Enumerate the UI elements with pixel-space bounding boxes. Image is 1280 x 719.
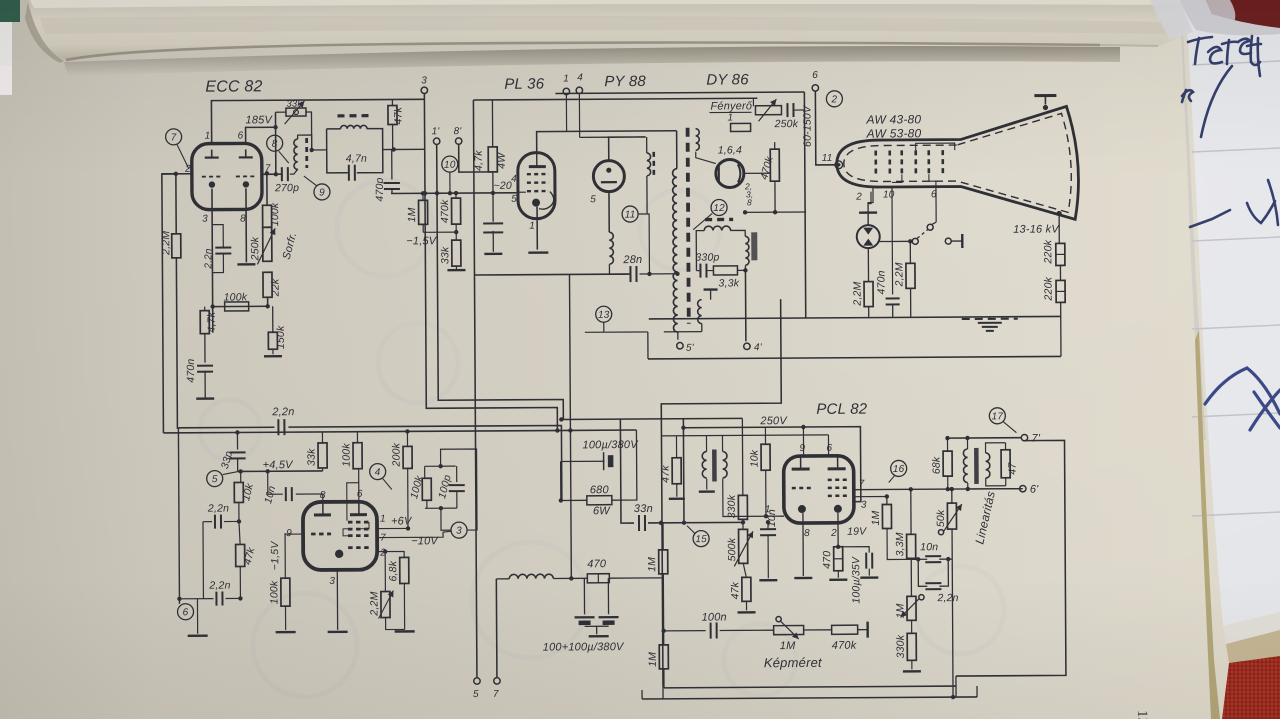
U1a anode plates [205, 149, 253, 157]
triode-pentode U5 PCL82 envelope [784, 456, 854, 523]
100n left [664, 630, 706, 632]
svg-text:6: 6 [183, 607, 189, 618]
coil DY86 heater right [745, 236, 749, 265]
cap PL36 bottom [492, 231, 494, 252]
svg-text:150k: 150k [275, 325, 287, 349]
value 4,7n [346, 153, 367, 165]
10n b node l [911, 558, 927, 560]
junction 395/148 [391, 147, 395, 151]
47 top [1005, 443, 1007, 450]
svg-text:470k: 470k [439, 199, 451, 223]
capacitor 100p [449, 485, 465, 491]
bus C y430 [163, 430, 570, 432]
voltage -1,5V b [269, 541, 281, 571]
switch contact c [945, 238, 951, 244]
label 1 res [727, 112, 733, 123]
svg-text:2: 2 [855, 192, 862, 203]
value 150k [275, 325, 287, 349]
U3 cathode bar [601, 181, 617, 183]
ground 47k2 [738, 611, 756, 614]
spark gap T bar [859, 213, 877, 225]
callout5 ptr [223, 471, 239, 474]
callout 11 [622, 206, 638, 222]
ground PL36 cap [484, 253, 502, 256]
blocking core bar [712, 450, 717, 482]
ground 33k t [447, 269, 465, 272]
4,5V rail [238, 470, 323, 473]
resistor 4,7k [200, 311, 209, 334]
svg-text:8': 8' [454, 126, 463, 137]
junction 951/491 [950, 487, 954, 491]
bus P y425 [178, 426, 274, 429]
resistor 680 6W [587, 496, 612, 505]
U5 pin1 wire [780, 515, 784, 517]
value 470 [587, 558, 607, 570]
junction 951/699 [951, 695, 955, 699]
capacitor 470p [384, 183, 400, 189]
terminal 5b label [473, 689, 479, 700]
value 470n b [875, 270, 887, 294]
PCL box top [661, 299, 783, 686]
svg-text:5: 5 [473, 689, 479, 700]
value 1M v2 [647, 652, 659, 667]
terminal 8' label [454, 126, 463, 137]
callout 11 stem [638, 214, 649, 274]
U1b pentode dot grid [348, 521, 369, 549]
U1b pin7 row [377, 531, 451, 537]
fenyero link [794, 109, 804, 111]
U5 pin1b [765, 504, 771, 515]
svg-text:2,2M: 2,2M [368, 591, 380, 616]
y213 wire [745, 211, 806, 213]
svg-text:28n: 28n [622, 254, 642, 266]
junction 967/491 [966, 487, 970, 491]
callout17 ptr [1003, 422, 1016, 433]
pin 2 [184, 164, 191, 175]
bus x806 [804, 92, 805, 318]
label ~20 [493, 180, 511, 192]
-1,5V row [423, 231, 456, 233]
150k top wire [272, 306, 274, 332]
terminal 6' label [1030, 484, 1039, 496]
cap 100 legs [583, 578, 585, 614]
enclosure top y99 [473, 98, 757, 100]
ground 470k [829, 579, 847, 582]
10n g bottom [767, 535, 769, 578]
c6 to ground [196, 599, 198, 634]
value 10k b [240, 482, 256, 503]
10k bottom [765, 470, 767, 516]
resistor 1M t [419, 200, 428, 224]
resistor 6,8k [400, 557, 409, 583]
svg-text:470k: 470k [832, 640, 857, 652]
junction 660/523 [659, 521, 663, 525]
CRT pin10 stub [891, 186, 894, 294]
1M pot top [910, 559, 912, 596]
100k e bottom [284, 606, 286, 630]
U5 pin 8 [804, 528, 810, 539]
callout10 stem [449, 172, 451, 193]
value 3,3M [894, 532, 906, 556]
tube name PCL 82 [816, 401, 868, 418]
value 68k [931, 456, 943, 474]
capacitor 10n b [925, 556, 941, 562]
junction 742/523 [741, 520, 745, 524]
junction 1' bus [435, 191, 439, 195]
100p branch top [456, 466, 458, 482]
svg-text:5: 5 [511, 194, 517, 205]
terminal 5' label [686, 343, 695, 354]
junction 683/428 [681, 426, 685, 430]
U1b pin 6 [357, 489, 363, 500]
100u right leg [635, 430, 637, 461]
U5 pin 9 [800, 443, 806, 454]
triode U1b ECC82 envelope [303, 502, 377, 570]
U3 anode dot [606, 168, 611, 173]
junction 277/172 [274, 172, 278, 176]
junction 241/469 [238, 469, 242, 473]
junction 570/578 [569, 576, 573, 580]
terminal 1 label [563, 73, 569, 84]
pair to c3 [441, 508, 451, 530]
3,3M bottom [910, 558, 912, 559]
outer bottom 2 [642, 697, 977, 699]
ground 6,8k [395, 630, 415, 633]
EHT wire mid [1059, 265, 1061, 280]
coil DY86 top [696, 129, 700, 151]
U1b pin1 row [377, 527, 408, 529]
resistor 150k [268, 332, 277, 349]
2,2n b loop [918, 559, 927, 586]
value 470k t [439, 199, 451, 223]
diode U3 PY88 envelope [593, 161, 624, 192]
CRT pin6 stub [935, 186, 937, 222]
svg-text:7: 7 [859, 479, 865, 490]
lin prim bottom [967, 483, 969, 489]
pair bottom row [425, 507, 457, 509]
oscillator coil L1 [294, 139, 298, 169]
fenyero underline [709, 111, 751, 113]
svg-text:50k: 50k [935, 509, 947, 527]
busC 100k drop [356, 432, 358, 443]
callout 15 [693, 531, 709, 547]
capacitor 10n c [286, 487, 292, 501]
resistor 100k e [281, 578, 290, 606]
resistor 10k b [234, 482, 243, 502]
U5 pin7 wire [854, 489, 1023, 490]
1M p bottom [911, 620, 913, 633]
33p bottom [237, 458, 239, 471]
value 6W [593, 505, 611, 517]
resistor 470 k [834, 547, 843, 571]
U5 pin 6 [827, 443, 833, 454]
junction cathode bus [210, 304, 214, 308]
voltage +4,5V [263, 459, 295, 471]
ground 100k e [276, 631, 296, 634]
value 4,7k 4W b [496, 152, 508, 169]
terminal 6' [1020, 485, 1026, 491]
resistor 100k bias [225, 302, 249, 311]
value 250k [249, 236, 261, 261]
2,2n loop [202, 522, 204, 599]
voltage 13-16 kV [1013, 223, 1060, 235]
svg-text:1M: 1M [870, 510, 882, 525]
954 stub [955, 676, 957, 697]
value 10k [749, 449, 761, 467]
svg-text:60-150V: 60-150V [801, 105, 813, 147]
U5 pin 7 [859, 479, 865, 490]
tube name PY 88 [604, 73, 646, 90]
svg-text:270p: 270p [274, 182, 299, 194]
svg-text:100k: 100k [268, 580, 280, 604]
svg-text:5: 5 [590, 194, 596, 205]
value 50k [935, 509, 947, 527]
bus x570 upper [568, 274, 571, 430]
svg-text:4,7k: 4,7k [206, 311, 218, 332]
flyback primary winding [673, 169, 678, 332]
2,2M bottom long wire [176, 258, 177, 429]
svg-text:19V: 19V [847, 526, 867, 538]
value 470k h [832, 640, 857, 652]
value 33k t [439, 246, 451, 264]
callout 7 [166, 129, 182, 145]
U4 pins 238 [744, 181, 753, 191]
resistor 200k [403, 446, 412, 468]
svg-text:250V: 250V [759, 415, 788, 427]
capacitor 10n g [760, 529, 776, 535]
50k down [951, 559, 954, 698]
svg-text:250k: 250k [249, 236, 261, 261]
330p row right [707, 270, 713, 272]
50k bottom [951, 529, 953, 559]
svg-text:3: 3 [861, 500, 867, 511]
pair loop [441, 449, 477, 530]
bus 1' vertical [437, 143, 564, 420]
svg-text:6: 6 [931, 189, 937, 200]
value 200k [390, 442, 402, 467]
47k2 bottom [745, 601, 747, 610]
value 33n [634, 503, 653, 515]
svg-text:33k: 33k [439, 246, 451, 264]
resistor 1M v2 [659, 645, 668, 669]
470k h T bar [858, 622, 868, 638]
svg-text:68k: 68k [931, 456, 943, 474]
CRT gun electrodes [876, 150, 943, 173]
2,2n cath bottom [212, 254, 223, 273]
junction 683/523 [682, 521, 686, 525]
lin core bar [974, 448, 979, 484]
U5 pin 3 [861, 500, 867, 511]
value 47k b [241, 546, 257, 567]
value 2,2M a [852, 281, 864, 306]
2,2M c wiper [378, 591, 393, 619]
ground U1b k [328, 631, 348, 634]
svg-text:10k: 10k [749, 449, 761, 467]
value 33k [286, 99, 303, 110]
svg-text:100k: 100k [269, 202, 281, 226]
svg-text:10n: 10n [920, 541, 938, 553]
svg-text:33n: 33n [634, 503, 653, 515]
ground 10n g [759, 579, 777, 582]
value 1M r [870, 510, 882, 525]
svg-text:470n: 470n [875, 270, 887, 294]
CRT pin 11 [822, 153, 833, 164]
callout 9 [314, 184, 330, 200]
svg-text:AW 53-80: AW 53-80 [866, 126, 922, 140]
value 100k c [340, 443, 352, 467]
potentiometer 1M h [774, 626, 804, 635]
svg-text:3,3M: 3,3M [894, 532, 906, 556]
value 100k b [224, 291, 248, 303]
voltage 185V [245, 114, 273, 126]
voltage -1,5V [406, 235, 438, 247]
value 470k DY [758, 155, 776, 182]
heater T bar [704, 288, 718, 290]
svg-text:Képméret: Képméret [764, 655, 823, 670]
resistor heater 1 [731, 123, 751, 131]
661 bottom join [662, 686, 664, 699]
voltage 19V [847, 526, 867, 538]
svg-text:100+100µ/380V: 100+100µ/380V [543, 641, 625, 654]
resistor 1M v1 [659, 550, 668, 574]
enclosure y359 [648, 356, 1061, 359]
value 270p [274, 182, 299, 194]
svg-text:22k: 22k [269, 278, 281, 297]
terminal 6 label [812, 70, 818, 81]
diode U4 DY86 envelope [716, 159, 744, 187]
ground 100u35 [860, 576, 878, 579]
U1b pin 8 [320, 490, 326, 501]
2,2M a bottom [868, 307, 870, 318]
resistor 3,3k [713, 266, 737, 275]
2,2M c top [384, 552, 386, 592]
capacitor 270p [282, 167, 288, 181]
coil b bottom [723, 478, 784, 516]
U1b screen link [347, 483, 359, 521]
CRT AW43-80 envelope [836, 106, 1078, 220]
svg-text:2: 2 [830, 94, 837, 105]
junction 267/469 [265, 469, 269, 473]
470p top wire [391, 150, 393, 180]
terminal 7b [494, 678, 500, 684]
svg-text:100k: 100k [224, 291, 248, 303]
value 100k d [408, 474, 426, 501]
value 1M h [780, 640, 796, 652]
junction 237/430 [235, 430, 239, 434]
U3 top wire b [609, 137, 646, 161]
potentiometer 50k [947, 503, 956, 529]
potentiometer 2,2M c [381, 592, 390, 618]
svg-text:4': 4' [754, 342, 763, 353]
outer right box [955, 440, 1066, 676]
svg-text:6,8k: 6,8k [387, 560, 399, 581]
220k b midline [1056, 290, 1065, 292]
terminal 8' [455, 138, 461, 144]
U1b pin 9 [286, 528, 292, 539]
value 2,2M b [893, 262, 905, 287]
2,2n e left [179, 598, 213, 600]
potentiometer 250k Fenyero [755, 106, 781, 115]
terminal 5b wire [476, 667, 478, 678]
switch contact b [927, 224, 933, 230]
svg-text:15: 15 [695, 534, 707, 545]
ferrite bead [751, 232, 757, 260]
47 bottom [1005, 478, 1007, 486]
1M h tap [776, 617, 781, 622]
U1b grid dashes [311, 532, 331, 535]
ground 330k b [903, 670, 921, 673]
junction 776/213 [773, 210, 777, 214]
6,8k bottom [403, 583, 405, 629]
junction 384/550 [383, 549, 387, 553]
U1b plates [314, 502, 367, 515]
value 22k [269, 278, 281, 297]
coil lin primary [963, 449, 967, 483]
tank coil L2 [341, 125, 367, 128]
U1b pin3 wire [336, 570, 338, 630]
CRT pin 2 [855, 192, 862, 203]
svg-text:470: 470 [821, 551, 833, 569]
svg-text:470n: 470n [185, 359, 197, 383]
svg-text:13: 13 [1134, 710, 1150, 719]
resistor 33k b [318, 443, 327, 468]
33k right stub [306, 112, 312, 150]
pin 1 [205, 131, 211, 142]
svg-text:1M: 1M [646, 557, 658, 572]
resistor 47k b [236, 544, 245, 566]
svg-text:17: 17 [992, 411, 1004, 422]
bus x620 to 33n [620, 419, 634, 523]
U1a grid dashes [202, 175, 255, 177]
callout 17 [989, 408, 1005, 424]
capacitor 33p [230, 452, 246, 458]
junction 440/465 [438, 464, 442, 468]
pin6 stub [827, 435, 829, 456]
svg-text:5': 5' [686, 343, 695, 354]
U5 triode cathode [802, 513, 804, 576]
junction 28n coil [647, 272, 651, 276]
resistor 220k b [1056, 280, 1065, 302]
1M bottom [422, 224, 424, 232]
resistor 2,2M b [906, 263, 915, 288]
pin6 wire to 185V node [246, 127, 276, 143]
680 left wire [561, 499, 587, 501]
svg-text:1: 1 [205, 131, 211, 142]
500k wiper [734, 531, 753, 566]
terminal 5b [474, 678, 480, 684]
bus x570 down [569, 430, 572, 578]
resistor 2,2M a [864, 282, 873, 307]
resistor 22k [263, 272, 272, 297]
resistor 33k t [452, 240, 461, 266]
resistor 4,7k 4W [488, 147, 497, 172]
coil DY86 heater [704, 226, 730, 231]
svg-text:PY 88: PY 88 [604, 73, 646, 90]
anode wire pin1 to top rail [211, 99, 424, 143]
fenyero left wire [752, 98, 754, 106]
svg-text:4: 4 [375, 467, 381, 478]
EHT wire down [1058, 213, 1060, 243]
U3 bottom wire [608, 191, 610, 232]
coil PY88 coupling [647, 153, 651, 176]
value 470p [374, 177, 386, 201]
coil a bottom [706, 479, 708, 490]
voltage +6V [391, 515, 413, 527]
U5 triode plate [792, 456, 810, 469]
250k wiper arrow [257, 228, 275, 264]
4,7k to 470n [204, 334, 206, 363]
svg-text:PL 36: PL 36 [504, 76, 544, 93]
